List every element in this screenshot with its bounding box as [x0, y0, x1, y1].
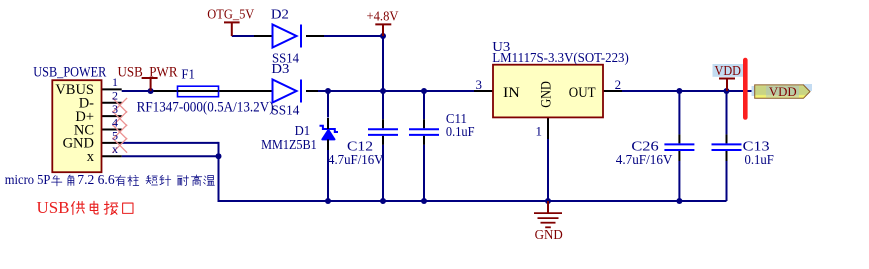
svg-text:MM1Z5B1: MM1Z5B1	[261, 137, 317, 152]
svg-text:GND: GND	[535, 227, 563, 242]
svg-text:SS14: SS14	[271, 103, 299, 118]
svg-text:OUT: OUT	[569, 85, 596, 101]
svg-text:5: 5	[112, 129, 118, 143]
svg-text:D3: D3	[271, 61, 289, 76]
svg-text:LM1117S-3.3V(SOT-223): LM1117S-3.3V(SOT-223)	[492, 51, 629, 66]
svg-text:0.1uF: 0.1uF	[745, 152, 775, 167]
svg-text:RF1347-000(0.5A/13.2V): RF1347-000(0.5A/13.2V)	[137, 100, 274, 116]
svg-text:2: 2	[615, 77, 622, 92]
svg-text:D2: D2	[271, 7, 289, 22]
svg-text:7.2 6.6: 7.2 6.6	[77, 172, 115, 187]
svg-text:+4.8V: +4.8V	[367, 9, 399, 24]
svg-text:OTG_5V: OTG_5V	[207, 7, 254, 22]
svg-text:micro 5P: micro 5P	[5, 172, 51, 187]
svg-text:2: 2	[112, 89, 118, 103]
svg-text:4.7uF/16V: 4.7uF/16V	[328, 152, 384, 167]
svg-text:GND: GND	[539, 81, 555, 108]
svg-text:4.7uF/16V: 4.7uF/16V	[616, 152, 673, 167]
svg-text:USB: USB	[37, 198, 70, 217]
svg-text:IN: IN	[503, 85, 520, 101]
svg-text:VDD: VDD	[769, 84, 797, 99]
svg-text:x: x	[87, 149, 95, 165]
svg-text:x: x	[112, 142, 118, 156]
svg-text:D1: D1	[295, 123, 311, 138]
svg-text:1: 1	[112, 75, 118, 89]
svg-text:USB_POWER: USB_POWER	[33, 64, 106, 80]
svg-text:3: 3	[476, 77, 483, 92]
svg-text:0.1uF: 0.1uF	[446, 124, 475, 139]
svg-text:VDD: VDD	[715, 63, 742, 78]
svg-text:1: 1	[536, 123, 543, 138]
svg-text:USB_PWR: USB_PWR	[118, 64, 178, 80]
svg-text:F1: F1	[181, 67, 195, 82]
svg-text:3: 3	[112, 102, 118, 116]
svg-text:4: 4	[112, 115, 118, 129]
